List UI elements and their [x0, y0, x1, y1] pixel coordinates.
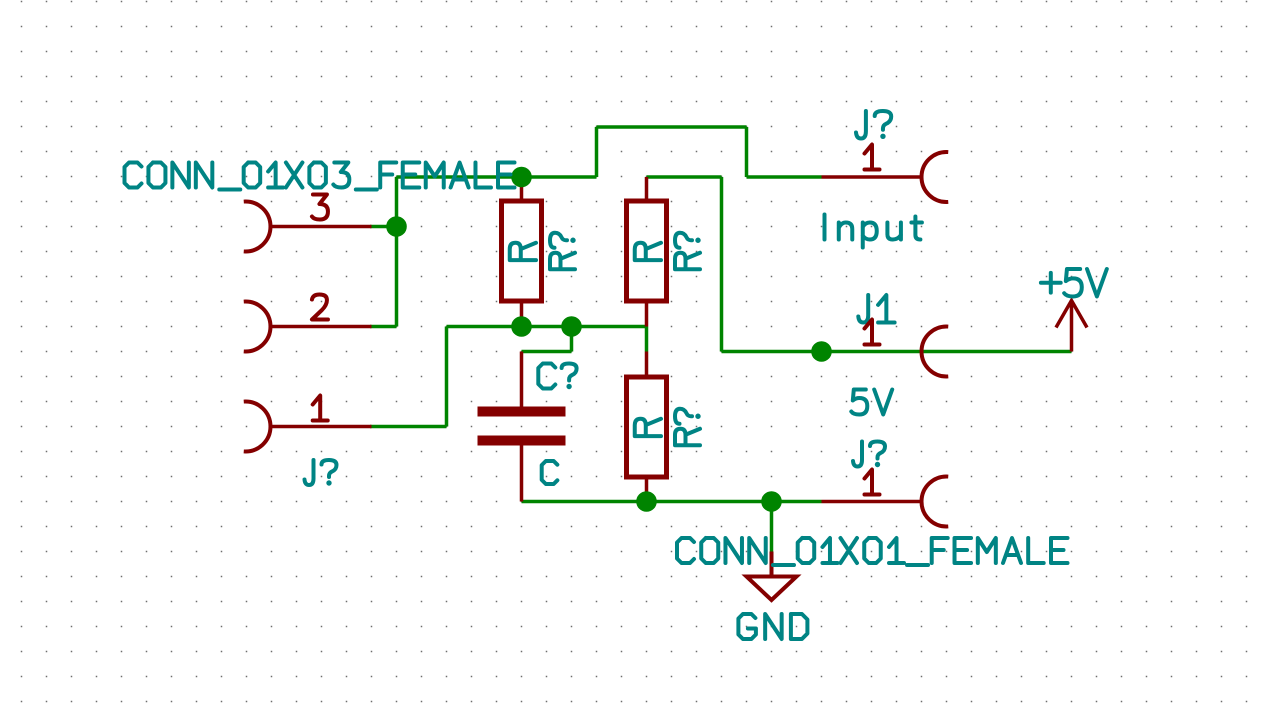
capacitor C pins	[520, 352, 524, 502]
value R of R1	[510, 243, 536, 260]
ref R? of R2	[675, 233, 701, 270]
pin number 2	[312, 295, 328, 320]
resistor R1 pins	[520, 177, 524, 327]
label CONN_01X01_FEMALE	[677, 538, 1068, 565]
pin 3 of J? left	[272, 225, 372, 229]
wire pin1 riser	[445, 327, 449, 427]
label CONN_01X03_FEMALE	[125, 163, 515, 190]
connector J? left pin2 socket	[244, 302, 271, 352]
label GND	[738, 614, 807, 639]
wire pin2 stub	[370, 325, 397, 329]
wire pin3 to junction	[370, 225, 397, 229]
connector J? bottom socket	[922, 477, 949, 527]
net label Input	[825, 215, 922, 248]
junction at GND branch	[761, 491, 782, 512]
ref J? bottom	[853, 442, 885, 468]
junction at R1 bottom	[511, 316, 532, 337]
junction at J1 pin	[811, 341, 832, 362]
wire mid row	[447, 325, 647, 329]
resistor R3 pins	[645, 352, 649, 502]
wire to GND	[770, 502, 774, 552]
wire pin1 horizontal	[370, 425, 447, 429]
wire to input pin	[747, 175, 822, 179]
ref R? of R1	[550, 233, 576, 270]
junction at cap riser	[561, 316, 582, 337]
pin number 3	[312, 195, 328, 220]
connector J? input socket	[922, 152, 949, 202]
resistor R2 pins	[645, 177, 649, 327]
wire R2 top to corner	[647, 175, 722, 179]
junction at R3 bottom	[636, 491, 657, 512]
label +5V	[1041, 269, 1107, 297]
pin 1 of J? bottom	[822, 500, 921, 504]
wire jog down right	[745, 127, 749, 177]
junction at pin3 node	[386, 216, 407, 237]
connector J1 socket	[922, 327, 949, 377]
ref J? input	[856, 111, 891, 139]
ref C?	[538, 364, 576, 390]
wire bottom row	[522, 500, 822, 504]
ref J1	[858, 295, 894, 323]
pin number 1 J1	[865, 320, 880, 345]
wire cap elbow riser	[570, 327, 574, 352]
junction at R1 top	[511, 167, 532, 188]
wire vertical pin3/pin2 bus	[395, 177, 399, 327]
wire right riser	[720, 177, 724, 352]
wire top row to R1 node	[397, 175, 597, 179]
value R of R3	[635, 419, 661, 436]
wire jog up left	[595, 127, 599, 177]
pin number 1 left	[313, 396, 328, 421]
wire jog top horizontal	[597, 125, 747, 129]
pin number 1 bottom	[865, 470, 880, 495]
resistor R3 body	[627, 377, 667, 477]
value C	[542, 461, 558, 484]
pin number 1 input	[865, 145, 880, 170]
capacitor C? plates	[478, 412, 566, 441]
net label 5V	[851, 390, 892, 415]
ref J? left	[305, 460, 337, 486]
value R of R2	[635, 243, 661, 260]
ref R? of R3	[675, 409, 701, 446]
resistor R1 body	[502, 201, 542, 301]
wire R2 bottom to R3 top	[645, 327, 649, 352]
pin 1 of J? input	[822, 175, 921, 179]
ground GND symbol	[747, 552, 797, 601]
resistor R2 body	[627, 201, 667, 301]
pin 2 of J? left	[272, 325, 372, 329]
power symbol +5V	[1056, 301, 1087, 352]
wire cap top elbow	[522, 350, 572, 354]
connector J? left pin1 socket	[244, 402, 271, 452]
connector J? left pin3 socket	[244, 202, 271, 252]
wire J1 row to +5V	[722, 350, 1072, 354]
pin 1 of J? left	[272, 425, 372, 429]
